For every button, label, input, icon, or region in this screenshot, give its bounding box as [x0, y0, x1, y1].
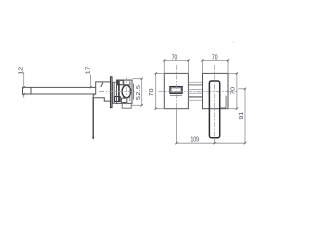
dimension 12 line [23, 72, 25, 98]
handle vertical centerline [214, 65, 216, 138]
spout outlet front view outer rect [170, 87, 182, 94]
svg-text:109: 109 [191, 136, 200, 144]
faucet body (side view) [93, 82, 110, 101]
outlet below cartridge [122, 103, 131, 108]
svg-text:17: 17 [86, 66, 92, 74]
stray speck top right [232, 41, 234, 43]
svg-text:91: 91 [239, 111, 245, 119]
cartridge bottom cap right [121, 98, 126, 102]
vertical centerline left plate [175, 65, 177, 109]
dimension 91 line [244, 89, 246, 143]
valve ellipse [122, 85, 131, 98]
front view horizontal centerline [159, 90, 238, 92]
extension from handle bottom down [214, 138, 216, 144]
dimension 52.5 extension lines [132, 79, 142, 106]
handle front view [209, 81, 219, 138]
spout outlet front view inner rect [171, 88, 181, 92]
front view: left escutcheon plate [164, 73, 188, 108]
cartridge top cap [117, 80, 123, 85]
cartridge top cap right [124, 80, 130, 84]
cartridge bottom cap [115, 97, 121, 102]
left side dimension 70 [156, 73, 165, 108]
stray speck 2 [211, 48, 212, 49]
dimension 91 extension [238, 88, 245, 90]
svg-text:12: 12 [18, 66, 24, 74]
svg-text:70: 70 [212, 54, 218, 62]
slot line under outlet [170, 94, 182, 96]
extension line from plate center down to 109 dim [175, 109, 177, 144]
top dimension 70 (right) [203, 60, 229, 73]
cartridge right inner line [129, 82, 131, 101]
cartridge main housing [117, 80, 133, 103]
dimension 109 line [176, 142, 245, 144]
dimension 17 line [90, 75, 92, 88]
svg-text:70: 70 [230, 86, 236, 94]
svg-text:52.5: 52.5 [136, 84, 142, 100]
side view vertical centerline [125, 78, 127, 106]
cartridge spool bar [118, 81, 120, 102]
spout (side view) [23, 87, 96, 94]
wall flange plate (side view) [111, 77, 113, 108]
svg-text:70: 70 [149, 88, 155, 96]
dimension end ticks [23, 59, 247, 144]
svg-text:70: 70 [172, 54, 178, 62]
handle lever (side view) [92, 98, 94, 139]
cartridge rear block [113, 82, 117, 103]
right side dimension 70 [228, 73, 237, 108]
front view: right escutcheon plate [203, 73, 229, 108]
cartridge right cap [133, 84, 135, 100]
side view horizontal centerline [99, 90, 135, 92]
top dimension 70 (left) [164, 60, 188, 73]
connecting body bars between plates [188, 82, 202, 100]
valve body tab behind handle [220, 96, 226, 108]
lever tip [92, 137, 94, 139]
